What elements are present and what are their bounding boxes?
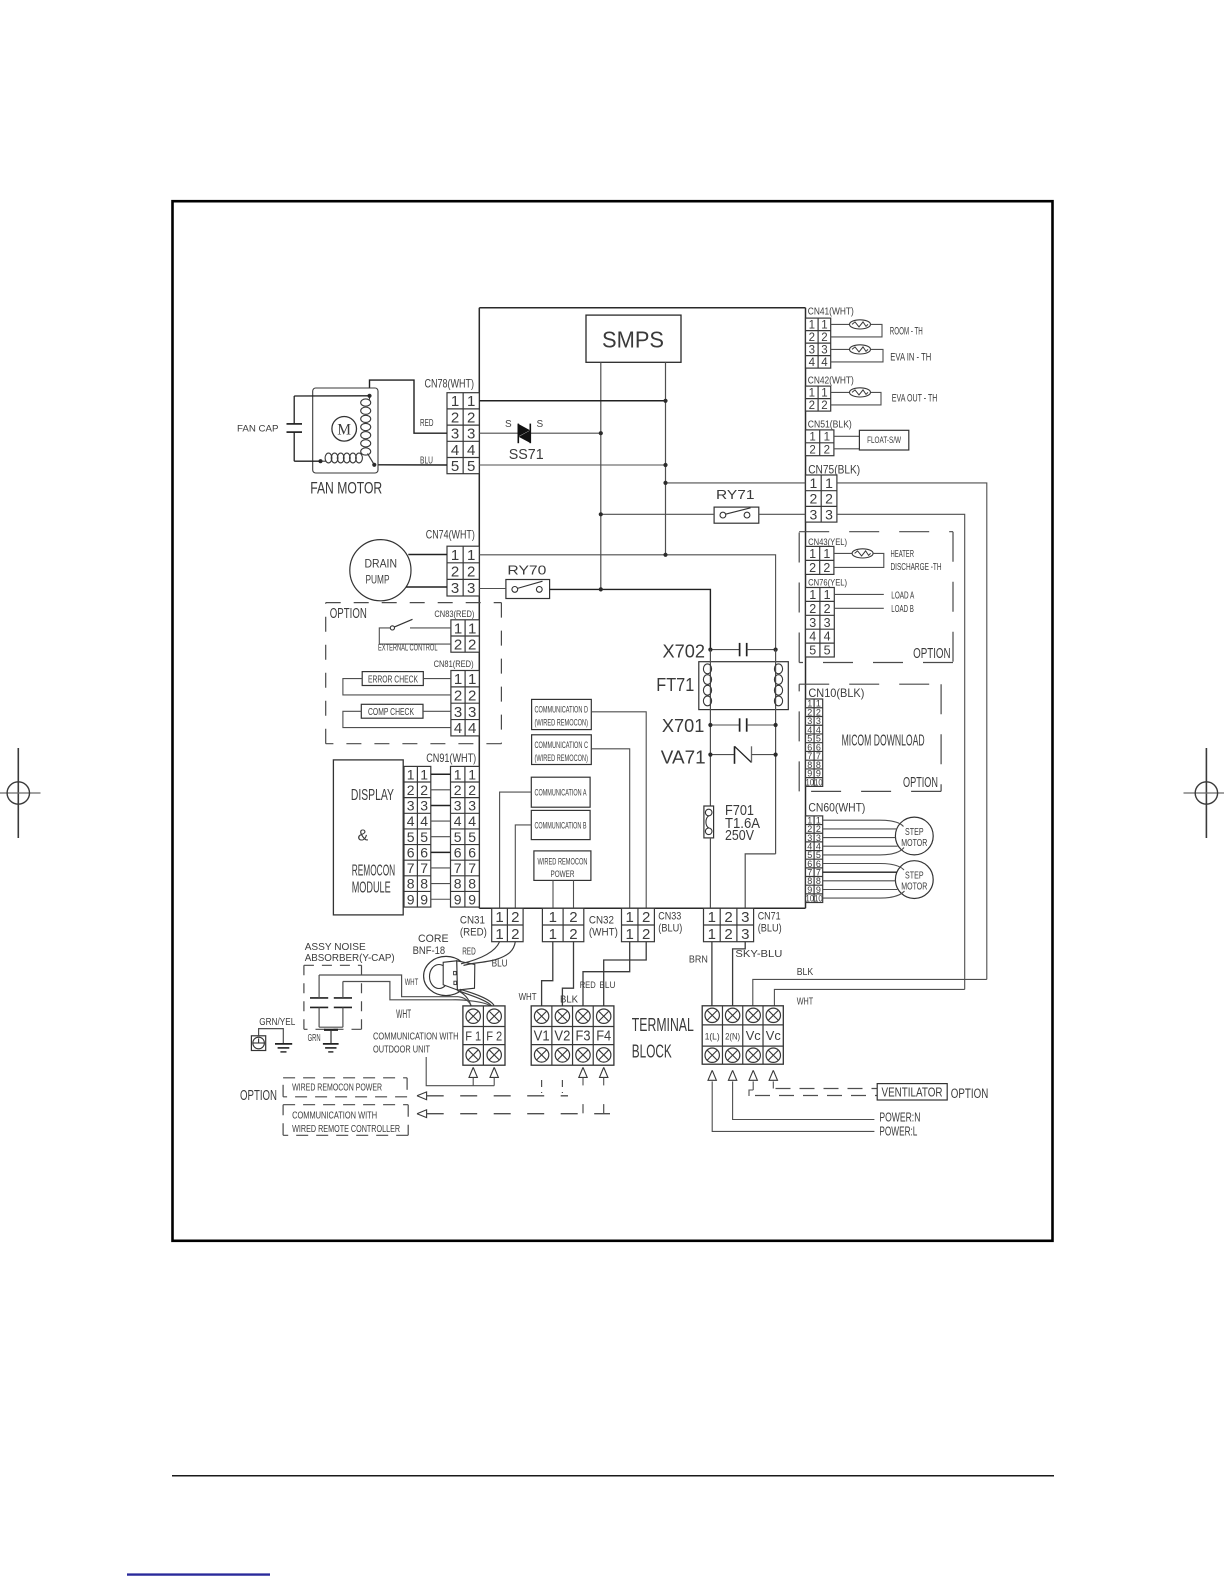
svg-text:COMMUNICATION B: COMMUNICATION B — [535, 820, 587, 830]
svg-text:M: M — [337, 422, 351, 439]
junction dot — [663, 463, 667, 467]
svg-text:1: 1 — [451, 393, 459, 410]
svg-text:4: 4 — [468, 720, 476, 737]
wire WHT upper to core — [319, 975, 471, 1006]
wire FT71 right to CN71 pin3 — [745, 854, 775, 908]
svg-text:3: 3 — [741, 926, 749, 943]
y-cap capacitor 1 — [310, 975, 328, 1027]
svg-text:1: 1 — [454, 766, 462, 782]
page frame border — [173, 201, 1053, 1241]
fan motor FM71 — [313, 388, 378, 473]
svg-text:1: 1 — [809, 588, 816, 602]
wire comm A to CN31 pin1 — [500, 792, 532, 908]
svg-text:2: 2 — [468, 687, 476, 704]
svg-text:(WIRED REMOCON): (WIRED REMOCON) — [535, 753, 589, 763]
svg-text:CN75(BLK): CN75(BLK) — [808, 463, 860, 477]
svg-text:5: 5 — [809, 644, 816, 658]
svg-text:(WHT): (WHT) — [589, 927, 618, 939]
svg-text:F 2: F 2 — [486, 1029, 502, 1044]
svg-text:WIRED REMOCON: WIRED REMOCON — [538, 856, 588, 866]
wire POWER:L — [712, 1081, 874, 1131]
wire CN78 pin5 — [479, 464, 665, 466]
svg-text:3: 3 — [451, 580, 459, 597]
svg-text:(WIRED REMOCON): (WIRED REMOCON) — [535, 718, 589, 728]
svg-text:1: 1 — [468, 671, 476, 688]
svg-text:1: 1 — [809, 319, 815, 331]
wire comm C to CN33 pin1 — [591, 749, 629, 909]
svg-text:1: 1 — [454, 671, 462, 688]
thermistor ROOM-TH — [831, 320, 882, 337]
svg-text:BLU: BLU — [492, 957, 508, 969]
connector CN42 — [806, 386, 831, 412]
svg-text:2(N): 2(N) — [725, 1032, 740, 1043]
svg-text:COMMUNICATION A: COMMUNICATION A — [535, 787, 587, 797]
svg-text:2: 2 — [724, 926, 732, 943]
junction dots VA71 — [708, 753, 712, 757]
earth plug symbol — [251, 1036, 265, 1051]
svg-text:3: 3 — [454, 798, 462, 814]
svg-text:10: 10 — [814, 777, 823, 787]
svg-text:(RED): (RED) — [460, 927, 487, 939]
svg-text:2: 2 — [821, 332, 827, 344]
svg-text:2: 2 — [511, 909, 519, 926]
svg-text:1: 1 — [454, 620, 462, 637]
svg-text:3: 3 — [468, 704, 476, 721]
svg-text:10: 10 — [806, 893, 815, 903]
svg-text:OPTION: OPTION — [903, 774, 938, 791]
svg-text:2: 2 — [451, 564, 459, 581]
wire CN31 pin2 BLU to core — [464, 942, 516, 966]
svg-text:1: 1 — [821, 387, 827, 399]
svg-text:9: 9 — [407, 891, 415, 907]
fan main winding — [361, 396, 371, 455]
svg-text:4: 4 — [821, 357, 828, 369]
svg-text:FT71: FT71 — [656, 675, 694, 695]
svg-text:3: 3 — [454, 704, 462, 721]
wire CN33 pin1 RED to F3 — [583, 942, 630, 1006]
fan aux winding — [321, 453, 363, 463]
wire comm B to CN31 pin2 — [515, 825, 531, 908]
wires core to F1F2 terminal — [458, 989, 495, 1006]
svg-text:2: 2 — [468, 782, 476, 798]
svg-text:CN10(BLK): CN10(BLK) — [808, 686, 864, 700]
svg-text:2: 2 — [809, 400, 815, 412]
svg-text:1: 1 — [467, 547, 475, 564]
dashed box WIRED REMOCON POWER — [283, 1078, 407, 1097]
box COMMUNICATION C (WIRED REMOCON) — [532, 735, 592, 765]
wire SMPS left leg — [600, 362, 602, 588]
thermistor EVA OUT-TH — [831, 388, 881, 405]
svg-text:6: 6 — [407, 844, 415, 860]
svg-text:2: 2 — [809, 444, 815, 456]
wire CN32 pin1 WHT to V1 — [542, 942, 553, 1006]
svg-text:2: 2 — [407, 782, 415, 798]
svg-text:X701: X701 — [662, 716, 705, 736]
svg-text:1: 1 — [708, 909, 716, 926]
box VENTILATOR — [877, 1084, 947, 1100]
svg-text:2: 2 — [467, 409, 475, 426]
wire F701 to CN71 pin1 — [709, 838, 711, 908]
svg-text:CN83(RED): CN83(RED) — [434, 609, 474, 620]
ground GND2 — [275, 1044, 292, 1052]
junction dots X702 — [708, 648, 712, 652]
svg-text:BLK: BLK — [560, 993, 578, 1005]
dashed box COMMUNICATION WITH WIRED REMOTE CONTROLLER — [283, 1105, 408, 1136]
step motor SM2 — [895, 861, 933, 899]
display and remocon module — [333, 760, 403, 915]
svg-text:SKY-BLU: SKY-BLU — [735, 948, 782, 960]
y-cap capacitor 2 — [334, 981, 352, 1027]
svg-text:2: 2 — [569, 926, 577, 943]
svg-text:ROOM - TH: ROOM - TH — [890, 326, 923, 338]
svg-text:DISCHARGE -TH: DISCHARGE -TH — [891, 561, 942, 573]
svg-text:5: 5 — [824, 644, 831, 658]
svg-text:(BLU): (BLU) — [658, 923, 682, 935]
ferrite core BNF-18 — [424, 956, 475, 995]
connector CN83 — [451, 620, 479, 654]
svg-text:7: 7 — [407, 860, 415, 876]
svg-text:7: 7 — [420, 860, 428, 876]
svg-text:8: 8 — [420, 876, 428, 892]
svg-text:6: 6 — [454, 844, 462, 860]
svg-text:3: 3 — [467, 426, 475, 443]
svg-text:4: 4 — [824, 630, 831, 644]
svg-text:CN74(WHT): CN74(WHT) — [426, 528, 475, 542]
junction dot fan bottom — [318, 459, 322, 463]
box WIRED REMOCON POWER — [534, 851, 591, 881]
svg-text:5: 5 — [420, 829, 428, 845]
wire SMPS right leg — [665, 362, 667, 555]
svg-text:CN81(RED): CN81(RED) — [434, 659, 474, 670]
svg-text:2: 2 — [454, 782, 462, 798]
svg-text:COMMUNICATION WITH: COMMUNICATION WITH — [292, 1109, 377, 1121]
wire RY71 right to CN75 pin3 — [759, 513, 806, 515]
svg-text:F4: F4 — [596, 1028, 611, 1045]
svg-text:8: 8 — [468, 876, 476, 892]
svg-text:1: 1 — [824, 431, 830, 443]
svg-text:BLK: BLK — [797, 966, 814, 978]
terminal block F1 F2 (outdoor comm) — [463, 1006, 505, 1065]
svg-text:BLU: BLU — [599, 980, 615, 991]
svg-text:1: 1 — [809, 387, 815, 399]
wire LOAD A — [834, 593, 884, 595]
capacitor X701 — [710, 718, 775, 731]
svg-text:1: 1 — [468, 620, 476, 637]
svg-text:CN51(BLK): CN51(BLK) — [808, 418, 852, 430]
svg-text:COMMUNICATION D: COMMUNICATION D — [535, 705, 589, 715]
label F701 T1.6A 250V — [725, 803, 760, 844]
thermistor HEATER DISCHARGE-TH — [834, 549, 884, 568]
svg-text:4: 4 — [468, 813, 476, 829]
junction dot fan top — [367, 394, 371, 398]
svg-text:3: 3 — [809, 616, 816, 630]
svg-text:CN33: CN33 — [658, 911, 681, 923]
svg-text:2: 2 — [569, 909, 577, 926]
svg-text:RED: RED — [420, 417, 434, 429]
svg-text:3: 3 — [824, 616, 831, 630]
svg-text:2: 2 — [824, 444, 830, 456]
svg-text:LOAD B: LOAD B — [891, 603, 914, 615]
wires CN60 pins1-5 to SM1 — [823, 820, 904, 855]
wire CN33 pin2 BLU to F4 — [604, 942, 647, 1006]
connector CN31 — [492, 908, 523, 942]
svg-text:4: 4 — [454, 813, 462, 829]
svg-text:WHT: WHT — [396, 1009, 411, 1021]
connector CN60 — [806, 815, 823, 903]
svg-text:DRAIN: DRAIN — [365, 559, 398, 571]
connector CN41 — [806, 318, 831, 369]
svg-text:PUMP: PUMP — [366, 575, 390, 587]
wire drain pump pin1 — [408, 554, 447, 556]
svg-text:3: 3 — [451, 426, 459, 443]
svg-text:3: 3 — [420, 798, 428, 814]
svg-text:4: 4 — [809, 357, 816, 369]
svg-text:1: 1 — [809, 475, 817, 491]
connector CN78 — [447, 393, 479, 475]
relay RY70 — [506, 580, 550, 599]
wire POWER:N — [733, 1081, 875, 1119]
svg-text:10: 10 — [806, 777, 815, 787]
svg-text:BNF-18: BNF-18 — [413, 945, 446, 957]
svg-text:MOTOR: MOTOR — [901, 837, 927, 849]
junction dot — [663, 399, 667, 403]
svg-text:7: 7 — [454, 860, 462, 876]
wire fan BLU lead — [374, 464, 447, 466]
svg-text:250V: 250V — [725, 828, 754, 844]
svg-text:2: 2 — [451, 409, 459, 426]
svg-text:3: 3 — [809, 506, 817, 522]
svg-text:1: 1 — [626, 926, 634, 943]
SMPS box U-SMPS — [586, 315, 681, 362]
svg-text:FLOAT-S/W: FLOAT-S/W — [867, 435, 901, 445]
svg-text:3: 3 — [407, 798, 415, 814]
svg-text:WHT: WHT — [405, 977, 419, 988]
varistor VA71 — [710, 746, 775, 764]
svg-text:V1: V1 — [534, 1028, 550, 1045]
option dashed box (external control / checks) — [326, 602, 502, 604]
svg-text:2: 2 — [809, 561, 816, 575]
wire comm D to CN33 pin2 — [591, 712, 646, 909]
svg-text:1: 1 — [468, 766, 476, 782]
svg-text:FAN CAP: FAN CAP — [237, 424, 279, 435]
svg-text:3: 3 — [468, 798, 476, 814]
svg-text:8: 8 — [454, 876, 462, 892]
wire plug to ground — [259, 1029, 284, 1044]
option dashed box (heater/load) — [799, 531, 953, 533]
svg-text:5: 5 — [468, 829, 476, 845]
svg-text:Vc: Vc — [766, 1028, 781, 1043]
svg-text:2: 2 — [420, 782, 428, 798]
wire CN32 pin2 BLK to V2 — [562, 942, 573, 1006]
y-cap dashed box — [304, 964, 362, 966]
svg-text:3: 3 — [825, 506, 833, 522]
svg-text:2: 2 — [642, 909, 650, 926]
svg-text:2: 2 — [642, 926, 650, 943]
switch FLOAT-S/W — [834, 430, 909, 450]
svg-text:OPTION: OPTION — [240, 1087, 277, 1104]
svg-text:GRN/YEL: GRN/YEL — [259, 1017, 295, 1028]
connector CN81 — [451, 671, 479, 738]
wire RY70 to X702 left — [550, 589, 711, 649]
svg-text:BRN: BRN — [689, 953, 708, 965]
connector CN91 — [451, 766, 480, 907]
ground GND1 (y-cap) — [323, 1030, 339, 1052]
svg-text:S: S — [537, 419, 544, 430]
svg-text:8: 8 — [407, 876, 415, 892]
svg-text:5: 5 — [407, 829, 415, 845]
svg-text:WHT: WHT — [797, 996, 814, 1008]
svg-text:1: 1 — [451, 547, 459, 564]
svg-text:2: 2 — [724, 909, 732, 926]
svg-text:V2: V2 — [554, 1028, 570, 1045]
wire remocon power to CN32 pin2 — [573, 880, 575, 908]
svg-text:1: 1 — [495, 926, 503, 943]
svg-text:ERROR CHECK: ERROR CHECK — [368, 675, 418, 686]
svg-text:10: 10 — [814, 893, 823, 903]
svg-text:1: 1 — [495, 909, 503, 926]
svg-text:1: 1 — [467, 393, 475, 410]
junction dot — [663, 481, 667, 485]
svg-text:WIRED REMOCON POWER: WIRED REMOCON POWER — [292, 1081, 382, 1093]
svg-text:RY71: RY71 — [716, 487, 755, 502]
registration mark right — [1184, 748, 1224, 838]
connector module-conn — [404, 766, 431, 907]
connector CN75 — [806, 475, 837, 522]
svg-text:LOAD A: LOAD A — [891, 590, 914, 602]
wire CN75 pin1 right to BLK drop — [837, 483, 987, 980]
junction dot — [599, 587, 603, 591]
svg-text:7: 7 — [468, 860, 476, 876]
box COMMUNICATION D (WIRED REMOCON) — [532, 699, 592, 729]
svg-text:CORE: CORE — [418, 933, 449, 945]
switch external control — [379, 619, 451, 644]
thermistor EVA IN-TH — [831, 345, 883, 362]
svg-text:1: 1 — [708, 926, 716, 943]
svg-text:RED: RED — [580, 980, 596, 991]
wire LOAD B — [834, 607, 884, 609]
svg-text:CN76(YEL): CN76(YEL) — [808, 577, 847, 588]
registration mark left — [0, 748, 41, 838]
svg-text:POWER: POWER — [551, 869, 575, 879]
transformer FT71 — [699, 650, 789, 854]
wire fan RED lead — [370, 380, 448, 433]
svg-text:5: 5 — [451, 458, 459, 475]
fuse F701 — [704, 806, 714, 838]
connector CN71 — [704, 908, 754, 942]
svg-text:1: 1 — [626, 909, 634, 926]
svg-text:1: 1 — [825, 475, 833, 491]
svg-text:2: 2 — [809, 332, 815, 344]
wire CN31 pin1 RED to core — [461, 942, 500, 964]
svg-text:WIRED REMOTE CONTROLLER: WIRED REMOTE CONTROLLER — [292, 1123, 400, 1135]
wires module to CN91 — [431, 774, 451, 899]
svg-text:9: 9 — [454, 891, 462, 907]
connector CN33 — [622, 908, 655, 942]
svg-text:1: 1 — [549, 926, 557, 943]
junction dot — [599, 431, 603, 435]
svg-text:CN41(WHT): CN41(WHT) — [808, 305, 854, 317]
svg-text:3: 3 — [821, 344, 827, 356]
connector CN32 — [542, 908, 583, 942]
svg-text:F3: F3 — [576, 1028, 591, 1045]
terminal block power 1L 2N Vc Vc — [702, 1006, 783, 1064]
ventilator dashed links — [749, 1081, 877, 1096]
wire fan cap top — [294, 395, 369, 397]
svg-text:3: 3 — [467, 580, 475, 597]
svg-text:6: 6 — [420, 844, 428, 860]
svg-text:COMP CHECK: COMP CHECK — [368, 707, 414, 718]
box COMP CHECK — [343, 704, 451, 727]
wire CN75 pin1 left — [666, 482, 806, 484]
svg-text:CN42(WHT): CN42(WHT) — [808, 375, 854, 387]
wire remocon power to CN32 pin1 — [552, 880, 554, 908]
svg-text:S: S — [505, 419, 512, 430]
wire CN74 pin1 long to X702 right — [479, 555, 775, 650]
svg-text:2: 2 — [467, 564, 475, 581]
svg-text:CN32: CN32 — [589, 915, 614, 927]
svg-text:MICOM DOWNLOAD: MICOM DOWNLOAD — [842, 732, 925, 749]
svg-text:CN71: CN71 — [758, 911, 781, 923]
svg-text:MOTOR: MOTOR — [901, 881, 927, 893]
svg-text:2: 2 — [823, 561, 830, 575]
svg-text:2: 2 — [454, 687, 462, 704]
svg-text:4: 4 — [809, 630, 816, 644]
svg-text:CN43(YEL): CN43(YEL) — [808, 537, 847, 548]
svg-text:1: 1 — [824, 588, 831, 602]
svg-text:POWER:L: POWER:L — [879, 1125, 917, 1139]
svg-text:9: 9 — [420, 891, 428, 907]
svg-text:1: 1 — [809, 431, 815, 443]
svg-text:HEATER: HEATER — [891, 548, 915, 560]
svg-text:BLOCK: BLOCK — [632, 1040, 672, 1061]
svg-text:CN31: CN31 — [460, 915, 485, 927]
arrows into F3 F4 — [579, 1067, 608, 1113]
wire WHT to terminal Vc2 — [774, 989, 964, 1005]
capacitor FAN CAP — [287, 396, 303, 461]
option dashed box (micom download) — [799, 683, 941, 685]
svg-text:2: 2 — [809, 491, 817, 507]
svg-text:REMOCON: REMOCON — [352, 863, 396, 880]
svg-text:RED: RED — [462, 946, 476, 958]
wire CN74 pin3 to RY70 — [479, 588, 506, 590]
svg-text:EVA IN - TH: EVA IN - TH — [890, 352, 931, 364]
svg-text:4: 4 — [454, 720, 462, 737]
svg-text:COMMUNICATION WITH: COMMUNICATION WITH — [373, 1031, 459, 1042]
wire y-cap bottom bus — [319, 1026, 343, 1028]
svg-text:2: 2 — [821, 400, 827, 412]
svg-text:SMPS: SMPS — [602, 326, 664, 352]
arrow + dashed wire (wired remote) — [417, 1110, 610, 1118]
svg-text:4: 4 — [467, 442, 475, 459]
step motor SM1 — [895, 817, 933, 855]
footer blue underline — [127, 1573, 270, 1575]
junction dots X701 — [708, 723, 712, 727]
svg-text:5: 5 — [454, 829, 462, 845]
svg-text:CN78(WHT): CN78(WHT) — [425, 377, 475, 391]
connector CN10 — [806, 699, 823, 788]
svg-text:GRN: GRN — [308, 1032, 321, 1044]
svg-text:EXTERNAL CONTROL: EXTERNAL CONTROL — [378, 643, 438, 653]
relay RY71 — [714, 507, 759, 523]
wire CN78 pin3 via SS71 — [479, 432, 518, 434]
svg-text:2: 2 — [825, 491, 833, 507]
svg-text:1: 1 — [821, 319, 827, 331]
wire WHT lower to F2 — [343, 982, 490, 1006]
svg-text:OPTION: OPTION — [913, 645, 951, 662]
main PCB outline — [479, 308, 805, 908]
svg-text:4: 4 — [420, 813, 428, 829]
wire CN71 pin1 BRN to terminal 1(L) — [711, 942, 713, 1006]
